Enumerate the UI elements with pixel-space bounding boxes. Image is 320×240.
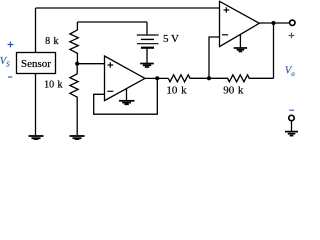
svg-text:VS: VS: [0, 56, 10, 69]
junction node at summing point: [207, 76, 211, 80]
terminal + output: [290, 20, 295, 25]
ground output terminal: [285, 132, 298, 136]
ground battery: [140, 64, 154, 68]
wire op-amp U2 output to terminal: [259, 22, 289, 24]
op-amp U1 + pin mark: [108, 62, 114, 68]
ground op-amp U2: [234, 34, 247, 51]
terminal - output: [289, 115, 294, 120]
junction node at U2 output: [271, 21, 275, 25]
svg-text:10 k: 10 k: [166, 85, 187, 97]
svg-text:5 V: 5 V: [163, 33, 179, 45]
wire op-amp U1 output: [145, 77, 168, 79]
op-amp U1 - pin mark: [107, 90, 113, 92]
label + sensor polarity: [8, 42, 14, 48]
wire inner rail from 8k top to battery: [77, 21, 147, 23]
battery V1 5 V: [137, 22, 159, 63]
resistor R3 10 k (horizontal): [168, 75, 209, 82]
op-amp U2 + pin mark: [224, 7, 230, 13]
ground divider: [70, 136, 85, 140]
ground sensor: [29, 136, 44, 140]
resistor R2 10 k (vertical): [70, 64, 78, 135]
resistor R1 8 k (vertical): [70, 22, 78, 64]
sensor box: [17, 53, 56, 74]
wire terminal - to ground: [291, 121, 293, 131]
junction node at divider tap: [75, 62, 79, 66]
label + output polarity: [289, 33, 295, 39]
svg-text:Sensor: Sensor: [21, 58, 51, 70]
wire divider tap to op-amp U1 + input: [77, 63, 104, 65]
resistor R4 90 k (horizontal): [209, 75, 274, 82]
junction node at U1 output: [155, 76, 159, 80]
wire sensor top lead: [35, 8, 37, 53]
ground op-amp U1: [119, 89, 135, 105]
wire U2 feedback from output junction down to 90 k: [273, 23, 275, 78]
svg-text:90 k: 90 k: [223, 85, 244, 97]
wire top rail from sensor top to op-amp U2 + input: [36, 7, 220, 9]
wire sensor bottom lead: [35, 74, 37, 136]
op-amp U2: [220, 1, 260, 46]
label - sensor polarity: [8, 76, 12, 78]
op-amp U2 - pin mark: [222, 34, 228, 36]
wire U1 feedback loop output to - input: [94, 78, 158, 114]
label - output polarity: [289, 109, 294, 111]
wire summing node up to op-amp U2 - input: [209, 37, 220, 78]
svg-text:Vo: Vo: [285, 66, 295, 79]
op-amp U1: [105, 56, 146, 101]
svg-text:8 k: 8 k: [45, 36, 58, 47]
svg-text:10 k: 10 k: [44, 79, 62, 90]
